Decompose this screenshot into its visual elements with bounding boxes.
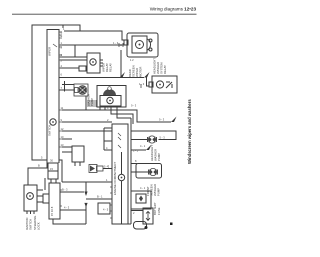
tiny wire labels <box>38 27 165 215</box>
junction tick <box>64 81 66 92</box>
wire 80 corner <box>80 30 122 32</box>
svg-text:B: B <box>38 164 40 168</box>
pin ticks on multifunction switch <box>59 32 112 218</box>
wire y110 bus <box>62 109 118 111</box>
battery symbol <box>146 212 150 221</box>
svg-text:1 - 3: 1 - 3 <box>113 41 119 45</box>
wire top pin stub <box>62 25 64 28</box>
battery box <box>143 208 153 224</box>
ignition switch circle <box>27 193 34 200</box>
outer box left edge <box>32 25 80 160</box>
wire y131 <box>62 130 112 132</box>
svg-text:B - 3: B - 3 <box>62 188 68 192</box>
washer relay box <box>79 53 103 73</box>
wire y128 <box>104 127 112 129</box>
windscreen washer pump 2 <box>149 168 158 175</box>
svg-text:PUMP: PUMP <box>157 188 161 196</box>
svg-text:PUMP: PUMP <box>157 153 161 161</box>
svg-text:RELAY: RELAY <box>109 63 113 72</box>
wire y68 to small box <box>60 67 79 69</box>
wire y182 bus <box>62 181 112 183</box>
wire y152 relay <box>62 151 72 153</box>
wire stub vertical x75 <box>74 45 76 57</box>
ignition wire top <box>44 178 46 190</box>
page bullet <box>170 223 173 226</box>
wire y45 to rear wiper motor <box>60 44 124 46</box>
wire x104 vertical <box>103 128 105 150</box>
connector pair symbols <box>119 43 141 88</box>
svg-text:MOTOR: MOTOR <box>139 67 143 77</box>
svg-text:SWITCH: SWITCH <box>29 219 33 230</box>
wire y163 <box>131 163 137 165</box>
wire y57 to relay box <box>60 56 87 58</box>
svg-text:PUMP: PUMP <box>90 98 94 106</box>
battery loop <box>134 222 147 230</box>
svg-text:ENGINE COMPARTMENT: ENGINE COMPARTMENT <box>113 162 117 195</box>
wire connector to washwipe box <box>147 78 150 87</box>
header rule <box>12 13 197 15</box>
wire ign 2 <box>37 195 43 197</box>
wire y169 buzzer to column <box>103 168 112 170</box>
wire y150 <box>131 149 146 151</box>
wire y122 row <box>62 121 112 123</box>
svg-text:SWITCH: SWITCH <box>48 125 52 136</box>
svg-text:9 - 3: 9 - 3 <box>131 104 137 108</box>
svg-text:9 - 3: 9 - 3 <box>159 118 165 122</box>
wire y60 to relay box <box>60 59 87 61</box>
wash wipe switch box <box>131 191 151 209</box>
wire x59 down <box>58 160 60 163</box>
windscreen wiper motor <box>97 86 126 108</box>
wire ign 3 <box>37 201 43 203</box>
wire bottom bus <box>53 219 86 224</box>
ignition wires right <box>37 189 43 191</box>
small box 4-5 <box>98 203 110 214</box>
wire y141 <box>104 140 112 142</box>
wire y210 <box>60 209 86 211</box>
windscreen washer pump blob <box>74 84 88 96</box>
column right wires <box>131 131 176 140</box>
wire washer pump down <box>85 96 87 110</box>
headlight washer pump inline <box>148 136 157 143</box>
wire y77.5 bus to relay <box>59 77 144 79</box>
wire y147 <box>62 146 72 148</box>
svg-text:LOCK: LOCK <box>37 222 41 230</box>
wire rear wiper motor down x121 <box>120 50 122 78</box>
svg-text:15 10 8: 15 10 8 <box>50 206 54 216</box>
fuse box small 1 <box>48 163 58 171</box>
wire end arrows <box>84 72 176 207</box>
intermittent circle on switch <box>50 119 56 125</box>
svg-text:1 - 5: 1 - 5 <box>133 149 139 153</box>
connector box fusebox left <box>43 194 49 203</box>
svg-text:4 - 1: 4 - 1 <box>140 186 146 190</box>
svg-text:FUSE: FUSE <box>157 207 161 215</box>
column inner line <box>130 118 132 224</box>
buzzer component <box>89 165 103 173</box>
svg-text:WIPER: WIPER <box>48 47 52 56</box>
svg-text:RELAY: RELAY <box>163 65 167 74</box>
svg-text:4 - 3: 4 - 3 <box>64 206 70 210</box>
svg-text:1 - 3: 1 - 3 <box>139 82 145 86</box>
wire y139 <box>62 138 72 140</box>
wire y160 bottom <box>59 160 62 182</box>
wire x86 upper <box>85 182 87 193</box>
inner diamond box <box>136 194 146 203</box>
wire y139.5 to headlight pump <box>131 139 147 141</box>
wire from fuse to right <box>50 179 52 183</box>
svg-text:1 2: 1 2 <box>130 58 134 62</box>
wire x86 lower <box>85 203 87 224</box>
wire staircase right <box>118 110 171 122</box>
ignition switch box <box>24 185 37 211</box>
svg-text:4 - 1: 4 - 1 <box>140 144 146 148</box>
column box <box>112 124 128 224</box>
wire y153 <box>104 149 112 151</box>
wire y199 <box>86 198 112 200</box>
svg-text:Wiring diagrams 12•23: Wiring diagrams 12•23 <box>150 7 197 12</box>
washer reservoir box <box>136 164 162 179</box>
wire y84.5 <box>62 84 74 86</box>
rear screen wiper motor <box>124 33 158 57</box>
windscreen wiper motor wires <box>99 107 101 110</box>
column bottom ext <box>128 223 131 225</box>
column inner wire <box>121 152 123 175</box>
column circle <box>118 174 124 180</box>
wire y90 <box>59 89 74 91</box>
wash wipe relay box top right <box>149 76 177 93</box>
column bottom right wires <box>131 210 143 212</box>
connector block top <box>88 100 96 107</box>
svg-text:4 - 5: 4 - 5 <box>103 208 109 212</box>
svg-text:B: B <box>61 31 63 35</box>
wire multifunction bottom left <box>28 160 47 185</box>
switch contacts in column <box>53 44 121 148</box>
stubs below relay box <box>74 162 76 166</box>
svg-text:Windscreen wipers and washers: Windscreen wipers and washers <box>187 99 192 164</box>
diamond in wash wipe switch <box>139 196 143 202</box>
vertical component labels <box>25 47 167 230</box>
wire B-3 <box>60 191 84 193</box>
svg-text:B - 1: B - 1 <box>97 195 103 199</box>
multifunction switch inner box <box>47 30 59 161</box>
fuse box small 2 <box>48 171 58 179</box>
fusebox column <box>49 183 60 219</box>
washer pump right wire <box>131 171 148 173</box>
svg-text:E: E <box>61 34 63 38</box>
wire to rear wiper motor top <box>64 31 125 40</box>
relay small box <box>72 146 84 162</box>
svg-text:5 - 3: 5 - 3 <box>160 136 166 140</box>
